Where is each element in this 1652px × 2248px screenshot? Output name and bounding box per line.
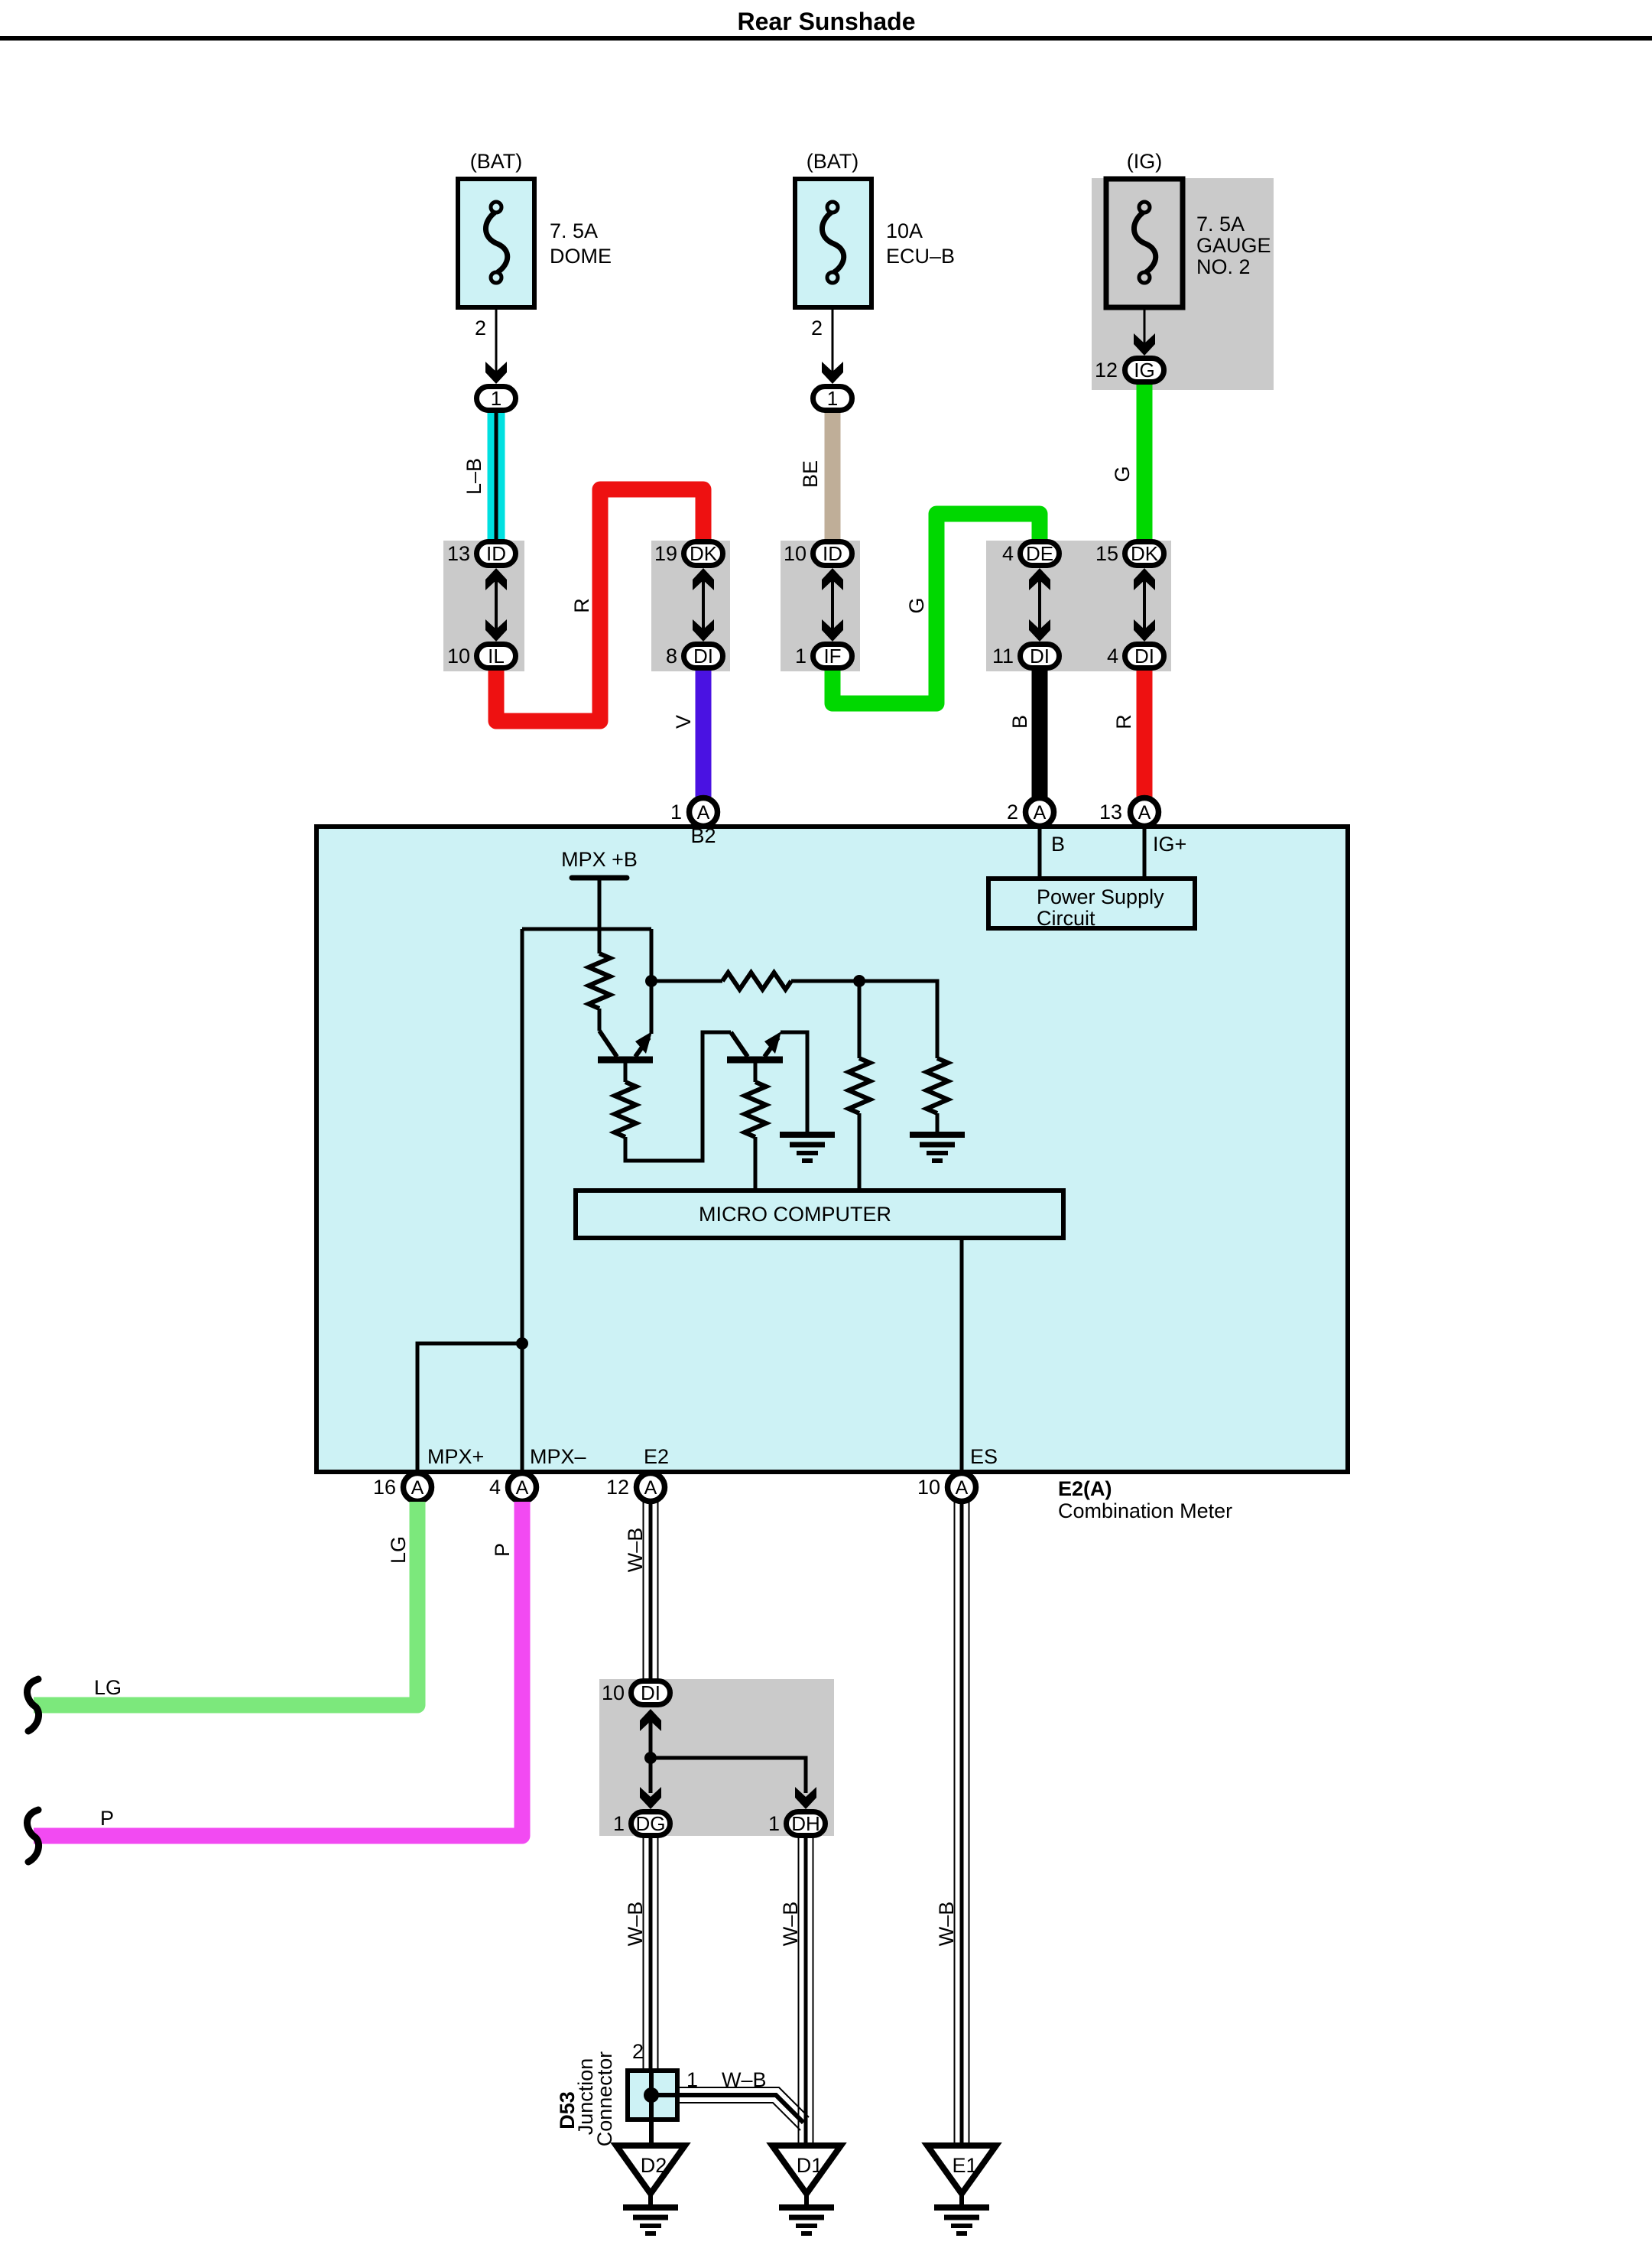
wire IG+ pin to power supply circuit [1143, 827, 1147, 878]
svg-text:2: 2 [475, 317, 486, 339]
svg-text:BE: BE [799, 460, 822, 488]
micro computer box [576, 1191, 1063, 1238]
wire Q2 emitter to ground [781, 1032, 807, 1135]
junction arrows DK-DI [693, 568, 714, 642]
svg-text:DH: DH [791, 1812, 820, 1835]
wire LG from MPX+ (light green) [34, 1502, 417, 1705]
svg-text:1: 1 [491, 387, 501, 410]
junction connector D53 box [628, 2071, 677, 2120]
svg-text:7. 5A: 7. 5A [550, 219, 598, 242]
wire DI branch to DH [651, 1758, 806, 1793]
connector pin 1 DH [787, 1812, 826, 1836]
connector 1 under ECU-B fuse [813, 387, 852, 411]
svg-text:1: 1 [670, 801, 682, 824]
arrow into IG pin [1134, 333, 1155, 356]
svg-text:10A: 10A [886, 219, 923, 242]
svg-text:W–B: W–B [624, 1528, 647, 1573]
svg-text:LG: LG [94, 1676, 122, 1699]
wire through D53 (horizontal) [651, 2093, 680, 2097]
wire R6 to ground [936, 1113, 940, 1135]
wire R loop from IL to DK (red) [496, 489, 703, 721]
fuse 10A ECU-B element [822, 202, 843, 283]
title rule [0, 36, 1652, 41]
fuse 7.5A GAUGE NO.2 body [1106, 179, 1183, 307]
svg-text:MPX +B: MPX +B [561, 848, 638, 871]
wire G from IG pin down to DK (green) [1137, 382, 1153, 544]
junction arrows DK-DI right [1134, 568, 1155, 642]
svg-text:IG: IG [1134, 359, 1154, 382]
wire ES from micro computer [960, 1240, 964, 1489]
svg-text:A: A [697, 802, 710, 824]
svg-text:DOME: DOME [550, 245, 612, 268]
wire break squiggle P [27, 1810, 38, 1862]
svg-text:DE: DE [1026, 542, 1053, 565]
connector pin 19 DK [684, 542, 723, 566]
svg-text:1: 1 [768, 1812, 780, 1835]
svg-text:DG: DG [636, 1812, 666, 1835]
connector pin 11 DI [1021, 645, 1060, 668]
meter pin 10 A (ES) [948, 1473, 976, 1502]
MPX +B supply bar [572, 875, 627, 881]
svg-text:DI: DI [641, 1681, 660, 1704]
svg-text:B2: B2 [690, 824, 716, 847]
resistor R2 (series) [722, 973, 791, 989]
connector block DK/DI background [651, 541, 730, 671]
wire V from DI to meter pin 1 B2 (violet) [696, 665, 712, 800]
meter pin 16 A (MPX+) [404, 1473, 432, 1502]
svg-text:R: R [570, 598, 593, 613]
wire node B down [858, 981, 862, 1058]
meter pin 12 A (E2) [637, 1473, 665, 1502]
connector pin 4 DI [1125, 645, 1164, 668]
svg-text:Circuit: Circuit [1037, 907, 1095, 930]
connector pin 10 IL [477, 645, 516, 668]
resistor R6 [927, 1058, 948, 1113]
arrow into connector 1 (ECU-B) [822, 362, 843, 384]
wire node A to resistor R2 [651, 979, 722, 983]
gray panel around GAUGE NO.2 fuse [1092, 178, 1274, 390]
svg-text:E1: E1 [952, 2154, 977, 2177]
connector pin 10 ID [813, 542, 852, 566]
connector pin 1 DG [631, 1812, 670, 1836]
power supply circuit box [988, 879, 1195, 930]
wire Q2 base down [754, 1062, 758, 1082]
arrow up into DI [640, 1709, 661, 1758]
meter pin 1 A (B2) [690, 798, 718, 827]
svg-text:2: 2 [632, 2040, 644, 2063]
svg-text:4: 4 [1107, 645, 1118, 668]
arrow down into DH [795, 1787, 816, 1809]
svg-text:LG: LG [387, 1536, 410, 1564]
wire P from MPX- (pink) [34, 1502, 522, 1836]
svg-text:ID: ID [486, 542, 506, 565]
ground point D2 [616, 2146, 685, 2207]
wire R4 to micro computer [754, 1137, 758, 1190]
svg-text:4: 4 [489, 1476, 501, 1499]
junction arrows ID-IL [485, 568, 507, 642]
svg-text:A: A [1138, 802, 1151, 824]
wire W-B from DG to D53 [644, 1835, 658, 2069]
wire W-B from E2 pin to DI [644, 1502, 658, 1681]
wire MPX- vertical [521, 929, 524, 1489]
svg-text:10: 10 [784, 542, 807, 565]
svg-text:B: B [1008, 715, 1031, 729]
svg-text:DK: DK [1131, 542, 1159, 565]
junction dot D53 [644, 2087, 659, 2103]
svg-text:A: A [956, 1477, 969, 1499]
svg-text:12: 12 [606, 1476, 629, 1499]
arrow into connector 1 (DOME) [485, 362, 507, 384]
wire Q1 base down [624, 1062, 628, 1082]
svg-text:10: 10 [917, 1476, 940, 1499]
wire emitter column Q1 [650, 929, 654, 1034]
ground (R6) [910, 1135, 965, 1161]
wire R2 to node B [791, 979, 859, 983]
resistor R3 (Q1 base) [615, 1082, 636, 1137]
wire G loop from IF to DE (green) [832, 514, 1040, 703]
ground point E1 ground symbol [934, 2207, 989, 2233]
ground point E1 [927, 2146, 996, 2207]
wire DI branch to DG [649, 1758, 653, 1793]
svg-text:DI: DI [1030, 645, 1050, 668]
ground point D2 ground symbol [623, 2207, 678, 2233]
ground point D1 ground symbol [779, 2207, 834, 2233]
svg-text:DI: DI [693, 645, 713, 668]
connector pin 10 DI [631, 1681, 670, 1705]
wire R from DI to meter pin 13 (red) [1137, 665, 1153, 800]
junction dot MPX branch [516, 1337, 528, 1350]
svg-text:MPX+: MPX+ [427, 1445, 484, 1468]
svg-text:10: 10 [447, 645, 470, 668]
svg-text:G: G [905, 597, 928, 613]
svg-text:DI: DI [1134, 645, 1154, 668]
svg-text:D1: D1 [797, 2154, 823, 2177]
connector pin 4 DE [1021, 542, 1060, 566]
svg-text:R: R [1112, 714, 1135, 729]
wire MPX+ branch [417, 1343, 522, 1489]
wire BE from connector 1 to ID (beige) [825, 410, 841, 549]
svg-text:Combination Meter: Combination Meter [1058, 1499, 1232, 1522]
svg-text:ID: ID [823, 542, 842, 565]
svg-text:Connector: Connector [593, 2051, 616, 2147]
svg-text:DK: DK [690, 542, 718, 565]
meter pin 4 A (MPX-) [508, 1473, 537, 1502]
wire from DOME fuse pin 2 [495, 310, 498, 372]
wire R3 to Q2 collector [625, 1032, 731, 1161]
svg-text:ES: ES [970, 1445, 998, 1468]
svg-text:Power Supply: Power Supply [1037, 885, 1164, 908]
resistor R1 (pull-up) [589, 953, 610, 1009]
wire B pin to power supply circuit [1038, 827, 1042, 878]
connector pin 1 IF [813, 645, 852, 668]
junction arrows ID-IF [822, 568, 843, 642]
svg-text:V: V [672, 715, 695, 729]
svg-text:IF: IF [823, 645, 841, 668]
svg-text:(IG): (IG) [1127, 150, 1163, 173]
svg-text:4: 4 [1002, 542, 1014, 565]
meter pin 13 A (IG+) [1131, 798, 1159, 827]
wire break squiggle LG [27, 1679, 38, 1731]
svg-text:12: 12 [1095, 359, 1118, 382]
svg-text:W–B: W–B [779, 1902, 802, 1947]
junction dot node B [853, 975, 865, 987]
connector pin 8 DI [684, 645, 723, 668]
svg-text:13: 13 [1099, 801, 1122, 824]
svg-text:2: 2 [811, 317, 823, 339]
wire from GAUGE fuse to IG pin [1144, 310, 1146, 344]
fuse 7.5A GAUGE NO.2 element [1134, 202, 1155, 283]
wire L-B from connector 1 to ID (cyan with black stripe) [488, 410, 505, 549]
wire R5 to micro computer [858, 1113, 862, 1190]
svg-text:15: 15 [1095, 542, 1118, 565]
svg-text:19: 19 [654, 542, 677, 565]
svg-text:Rear Sunshade: Rear Sunshade [738, 8, 916, 35]
wire W-B from DH to D1 [799, 1835, 813, 2146]
connector 1 under DOME fuse [477, 387, 516, 411]
svg-text:B: B [1051, 833, 1065, 856]
svg-text:2: 2 [1007, 801, 1018, 824]
transistor Q1 [598, 1009, 653, 1060]
resistor R5 [849, 1058, 870, 1113]
svg-text:P: P [491, 1543, 514, 1557]
svg-text:8: 8 [666, 645, 677, 668]
svg-text:A: A [516, 1477, 529, 1499]
svg-text:A: A [644, 1477, 657, 1499]
connector pin 13 ID [477, 542, 516, 566]
fuse 7.5A DOME element [485, 202, 507, 283]
svg-text:1: 1 [827, 387, 838, 410]
connector block DE/DI + DK/DI background [986, 541, 1171, 671]
connector pin 15 DK [1125, 542, 1164, 566]
svg-text:W–B: W–B [624, 1902, 647, 1947]
svg-text:10: 10 [602, 1681, 625, 1704]
svg-text:1: 1 [795, 645, 807, 668]
svg-text:MICRO COMPUTER: MICRO COMPUTER [699, 1203, 891, 1226]
svg-text:A: A [411, 1477, 424, 1499]
combination meter E2(A) body [316, 827, 1348, 1472]
ground (Q2 emitter) [780, 1135, 835, 1161]
svg-text:1: 1 [613, 1812, 625, 1835]
wire B from DI to meter pin 2 (black) [1032, 665, 1048, 800]
svg-text:MPX–: MPX– [530, 1445, 586, 1468]
svg-text:E2: E2 [644, 1445, 669, 1468]
svg-text:(BAT): (BAT) [807, 150, 859, 173]
junction dot DI branch [644, 1752, 657, 1764]
wire W-B from D53 to D1 [680, 2087, 809, 2130]
connector block DI/DG/DH background [599, 1679, 834, 1836]
svg-text:L–B: L–B [462, 458, 485, 495]
connector block ID/IF background [781, 541, 860, 671]
svg-text:IL: IL [488, 645, 505, 668]
svg-text:D2: D2 [641, 2154, 667, 2177]
svg-text:16: 16 [373, 1476, 396, 1499]
svg-text:W–B: W–B [935, 1902, 958, 1947]
transistor Q2 [727, 1031, 783, 1060]
svg-text:ECU–B: ECU–B [886, 245, 955, 268]
svg-text:IG+: IG+ [1153, 833, 1186, 856]
wire through D53 (vertical) [649, 2069, 654, 2146]
arrow down into DG [640, 1787, 661, 1809]
svg-text:GAUGE: GAUGE [1196, 234, 1271, 257]
fuse 7.5A DOME body [458, 179, 534, 307]
wire from ECU-B fuse pin 2 [832, 310, 834, 372]
svg-text:7. 5A: 7. 5A [1196, 213, 1245, 236]
wire node B to right branch [859, 981, 937, 1058]
meter pin 2 A (B) [1026, 798, 1054, 827]
resistor R4 (Q2 base) [745, 1082, 766, 1137]
wire MPX+B to resistor [598, 878, 602, 953]
svg-text:P: P [100, 1807, 114, 1830]
wire rail MPX [522, 927, 651, 931]
junction arrows DE-DI [1029, 568, 1050, 642]
junction dot node A [645, 975, 657, 987]
connector block ID/IL background [443, 541, 524, 671]
svg-text:(BAT): (BAT) [470, 150, 523, 173]
svg-text:A: A [1034, 802, 1047, 824]
svg-text:E2(A): E2(A) [1058, 1477, 1112, 1500]
svg-text:13: 13 [447, 542, 470, 565]
wire W-B from ES pin to E1 [955, 1502, 969, 2146]
svg-text:G: G [1111, 466, 1134, 482]
svg-text:NO. 2: NO. 2 [1196, 255, 1251, 278]
ground point D1 [772, 2146, 841, 2207]
fuse 10A ECU-B body [795, 179, 871, 307]
connector pin 12 IG [1125, 359, 1164, 382]
svg-text:11: 11 [992, 645, 1014, 668]
